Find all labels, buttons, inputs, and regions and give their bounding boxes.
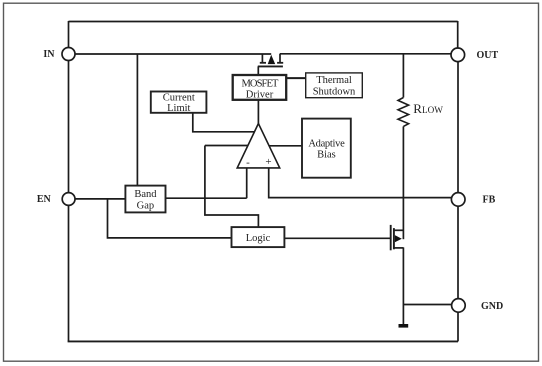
svg-text:OUT: OUT	[477, 50, 499, 61]
svg-text:Logic: Logic	[246, 233, 271, 244]
svg-text:GND: GND	[481, 301, 503, 312]
svg-text:FB: FB	[483, 195, 496, 206]
svg-text:Current: Current	[163, 92, 195, 103]
svg-text:+: +	[265, 156, 271, 168]
svg-text:Driver: Driver	[246, 89, 274, 100]
svg-text:Shutdown: Shutdown	[313, 87, 356, 98]
svg-text:-: -	[246, 156, 250, 168]
svg-text:Limit: Limit	[167, 103, 190, 114]
svg-text:MOSFET: MOSFET	[241, 79, 279, 90]
svg-text:Bias: Bias	[317, 149, 336, 160]
svg-text:EN: EN	[37, 194, 52, 205]
svg-text:Band: Band	[134, 189, 157, 200]
svg-text:IN: IN	[43, 49, 55, 60]
svg-text:Thermal: Thermal	[316, 75, 352, 86]
svg-text:Adaptive: Adaptive	[308, 138, 345, 149]
svg-text:Gap: Gap	[137, 200, 155, 211]
